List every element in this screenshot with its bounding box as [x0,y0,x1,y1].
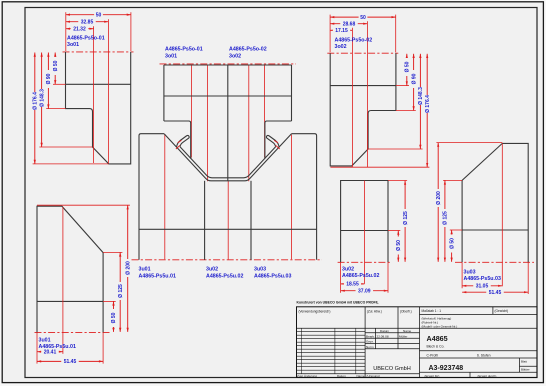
tb v divider 493 [492,307,494,315]
view 3o02 outline [330,53,396,166]
view 3o02 axis centerline [327,52,398,54]
svg-text:A4865: A4865 [427,334,448,343]
svg-text:A3-923748: A3-923748 [429,365,464,372]
ext horiz Ø176.4 (3o01) [33,163,109,165]
dim 21.32 (3o01) [66,28,94,30]
svg-text:Datum: Datum [337,374,346,378]
dim 37.09 (3u02) [341,290,388,292]
ext line 28.68 (3o02) [366,21,368,167]
top rolls divider (pass center) [227,65,229,181]
view 3u01 axis centerline [35,331,111,333]
view 3u02 outline [341,181,388,263]
svg-text:Ø 176.4: Ø 176.4 [33,92,39,110]
svg-text:51.45: 51.45 [64,359,77,365]
svg-text:Ø 90: Ø 90 [411,73,417,84]
ext vert left (3u03) [461,262,463,288]
svg-text:Norm: Norm [366,345,374,349]
svg-text:Ø 200: Ø 200 [125,261,131,275]
ext horiz Ø90 (3o01) [46,108,65,110]
svg-text:Name: Name [357,374,365,378]
bend mark right [276,145,280,149]
top rolls right face [291,65,293,121]
svg-text:Änderung: Änderung [304,374,317,378]
tb h under A3 right [420,371,538,373]
top rolls bore line [164,95,292,97]
svg-text:UBECO GmbH: UBECO GmbH [373,366,411,372]
ext vert left (3u01) [36,332,38,363]
svg-text:(Urspung): (Urspung) [367,374,380,378]
strip inner surface [180,147,276,178]
ref line 18.55 (3u02) [363,181,365,284]
dia dim Ø90 (3o02) [413,54,415,111]
svg-text:3u02: 3u02 [206,267,218,273]
svg-text:18.55: 18.55 [346,282,359,288]
ref line a4 (center) [227,181,229,259]
svg-text:3u01: 3u01 [39,338,51,344]
svg-text:Blatt: Blatt [521,359,527,363]
ext vert 20.41 (3u01) [62,207,64,354]
svg-text:(Oberfl.): (Oberfl.) [400,310,412,314]
ext horiz Ø50 (3o02) [396,85,409,87]
bottom roll divider right [250,181,252,260]
svg-text:51.45: 51.45 [489,290,502,296]
dia dim Ø50 (3u02) [397,231,399,262]
svg-text:3u01: 3u01 [139,267,151,273]
ext horiz Ø200 (3u03) [436,142,502,144]
tb v divider blatt [519,358,521,372]
dia dim Ø200 (3u03) [437,143,439,262]
top roll 3o01 shoulder [164,121,191,159]
svg-text:Ø 125: Ø 125 [118,284,124,298]
svg-text:17.15: 17.15 [335,28,348,34]
dim 50 (3o02) [330,16,396,18]
ext horiz Ø50 (3u02) [388,230,400,232]
top rolls left face [163,65,165,121]
svg-text:A4865-Ps5o-01: A4865-Ps5o-01 [67,36,105,42]
svg-text:28.68: 28.68 [343,21,356,27]
tb h top row [420,313,538,315]
tb v divider 398 [397,307,399,349]
svg-text:3o02: 3o02 [229,54,241,60]
dim 31.05 (3u03) [462,285,502,287]
view 3o01 bore line [66,83,131,85]
ext horiz Ø148.3 (3o02) [368,148,423,150]
dia dim Ø50 (3o01) [54,53,56,85]
svg-text:Ø 125: Ø 125 [403,211,409,225]
tb revision grid rows [297,331,366,333]
ext line right (3o01) [130,12,132,51]
ext horiz Ø50 (3o01) [53,83,66,85]
svg-text:Blech & Co.: Blech & Co. [427,344,445,348]
tb h under cprofil [420,357,538,359]
svg-text:Ø 50: Ø 50 [53,60,59,71]
top rolls top edge [164,64,292,66]
svg-text:(Ersatz durch): (Ersatz durch) [478,374,497,378]
svg-text:50: 50 [96,12,102,18]
svg-text:3o01: 3o01 [67,42,79,48]
svg-text:(Gewicht): (Gewicht) [495,309,509,313]
svg-text:Blätter: Blätter [521,368,530,372]
ext line 21.32 (3o01) [93,26,95,163]
svg-text:A4865-Ps5u.02: A4865-Ps5u.02 [206,274,243,280]
tb v divider 365 [364,307,366,378]
dim 17.15 (3o02) [330,29,352,31]
title block frame [297,307,538,378]
ext vert right (3u03) [527,262,529,294]
svg-text:3u03: 3u03 [254,267,266,273]
svg-text:Ø 50: Ø 50 [396,240,402,251]
svg-text:(Ersatz für): (Ersatz für) [425,374,440,378]
ext horiz Ø50 (3u03) [450,229,462,231]
bend mark left upper [178,140,182,143]
svg-text:32.85: 32.85 [81,19,94,25]
svg-text:Name: Name [403,329,412,333]
ext horiz Ø90 (3o02) [396,110,416,112]
ext line right (3o02) [395,15,397,53]
svg-text:21.32: 21.32 [73,26,86,32]
ext horiz Ø176.4 (3o02) [330,166,429,168]
svg-text:Ø 148.3: Ø 148.3 [418,87,424,105]
svg-text:3o01: 3o01 [165,54,177,60]
svg-text:C-Profil: C-Profil [427,353,439,357]
dia dim Ø50 (3u01) [113,301,115,332]
ext horiz Ø125 (3u03) [443,179,462,181]
dia dim Ø125 (3u02) [404,181,406,262]
dia dim Ø176.4 (3o02) [426,54,428,167]
ext horiz Ø125 (3u02) [388,180,407,182]
tb revision grid cols [301,328,303,374]
ext horiz Ø148.3 (3o01) [39,146,92,148]
svg-text:A4865-Ps5u.02: A4865-Ps5u.02 [342,273,379,279]
ext horiz Ø50 (3u01) [103,300,116,302]
ext horiz Ø125 (3u01) [103,251,122,253]
svg-text:Müller: Müller [399,334,407,338]
ext horiz Ø200 (3u01) [37,204,130,206]
svg-text:(Modell- oder Gesenk-Nr.): (Modell- oder Gesenk-Nr.) [422,324,458,328]
dim 28.68 (3o02) [330,23,367,25]
ext vert right (3u01) [102,332,104,363]
dia dim Ø200 (3u01) [127,205,129,332]
view 3u03 outline [462,143,528,262]
bottom rolls bore line [139,228,317,230]
view 3u02 axis centerline [338,261,391,263]
dim 18.55 (3u02) [341,283,365,285]
top roll 3o02 shoulder [265,121,292,159]
dim 20.41 (3u01) [37,351,63,353]
svg-text:Zust.: Zust. [297,374,304,378]
svg-text:50: 50 [360,15,366,21]
dia dim Ø50 (3u03) [451,230,453,262]
dia dim Ø148.3 (3o02) [419,54,421,149]
ref line a1 [164,134,166,259]
strip right lip [266,135,279,147]
tb v divider 419 [419,307,421,378]
view 3o01 axis centerline [63,51,134,53]
svg-text:Ø 200: Ø 200 [436,191,442,205]
assembly bottom axis centerline [132,259,323,261]
svg-text:A4865-Ps5o-01: A4865-Ps5o-01 [165,47,203,53]
view 3u03 axis centerline [455,261,534,263]
ext line left (3o02) [329,15,331,53]
svg-text:Konstruiert von UBECO GmbH mit: Konstruiert von UBECO GmbH mit UBECO PRO… [297,301,379,305]
svg-text:Ø 176.4: Ø 176.4 [425,95,431,113]
ext line left (3o01) [65,12,67,51]
bottom roll divider left [204,181,206,260]
tb h blatt divider [520,365,538,367]
ref line a6 [264,66,266,158]
svg-text:A4865-Ps5u.01: A4865-Ps5u.01 [139,274,176,280]
dia dim Ø148.3 (3o01) [41,53,43,148]
view 3u01 outline [37,206,103,332]
dia dim Ø125 (3u01) [119,252,121,332]
svg-text:3o02: 3o02 [335,44,347,50]
svg-text:3u02: 3u02 [342,267,354,273]
svg-text:Ø 125: Ø 125 [443,211,449,225]
dia dim Ø125 (3u03) [444,180,446,261]
assembly top axis centerline [160,63,297,65]
dim 32.85 (3o01) [66,21,109,23]
tb h under A4865 [420,350,538,352]
tb v divider bearb col [375,328,377,349]
svg-text:Ø 148.3: Ø 148.3 [39,89,45,107]
dia dim Ø50 (3o02) [406,54,408,86]
strip outer surface [164,134,291,181]
bend mark left [176,145,180,149]
svg-text:37.09: 37.09 [358,288,371,294]
tb subtable bottom [365,348,419,350]
tb h bottom strip left [297,373,420,375]
svg-text:A4865-Ps5u.03: A4865-Ps5u.03 [464,276,501,282]
strip left lip [177,135,190,147]
view 3u03 bore line [462,229,528,231]
svg-text:A4865-Ps5u.01: A4865-Ps5u.01 [39,344,76,350]
svg-text:A4865-Ps5u.03: A4865-Ps5u.03 [254,274,291,280]
svg-text:Maßstab 1 : 1: Maßstab 1 : 1 [422,309,442,313]
ext vert right (3u02) [387,262,389,292]
ext vert left (3u02) [340,262,342,292]
tb v divider ersatz [469,372,471,377]
dim 50 (3o01) [66,14,131,16]
ref line a5 [248,66,250,182]
ext line 17.15 (3o02) [351,28,353,167]
view 3o02 bore line [330,85,396,87]
ref line a7 [291,135,293,259]
svg-text:6. Stufen: 6. Stufen [477,353,491,357]
dim 51.45 (3u03) [462,291,528,293]
svg-text:Ø 50: Ø 50 [405,61,411,72]
svg-text:Bearb.: Bearb. [366,334,375,338]
svg-text:Ø 90: Ø 90 [46,73,52,84]
ext vert 31.05 (3u03) [501,143,503,286]
dia dim Ø176.4 (3o01) [34,53,36,164]
dim 51.45 (3u01) [37,360,103,362]
svg-text:31.05: 31.05 [476,284,489,290]
svg-text:A4865-Ps5o-02: A4865-Ps5o-02 [335,38,373,44]
ref line a3 [206,66,208,182]
svg-text:Gepr.: Gepr. [366,340,374,344]
view 3u01 bore line [37,300,103,302]
svg-text:(Zul. Abw.): (Zul. Abw.) [367,310,382,314]
bend mark right upper [274,140,278,143]
tb subtable rows [365,332,419,334]
ref line a2 [190,66,192,158]
view 3o01 outline [66,52,131,164]
svg-text:22.08.08: 22.08.08 [377,334,389,338]
svg-text:20.41: 20.41 [44,349,57,355]
svg-text:Datum: Datum [380,329,390,333]
view 3u02 bore line [341,230,388,232]
tb h main [297,327,538,329]
svg-text:Ø 50: Ø 50 [449,238,455,249]
dia dim Ø90 (3o01) [47,53,49,109]
svg-text:A4865-Ps5o-02: A4865-Ps5o-02 [229,47,267,53]
svg-text:Ø 50: Ø 50 [111,312,117,323]
bottom roll 3u01 outline [139,134,164,260]
ext line 32.85 (3o01) [107,19,109,163]
bottom roll 3u03 outline [292,134,317,260]
svg-text:3u03: 3u03 [464,270,476,276]
svg-text:(Verwendungsbereich): (Verwendungsbereich) [299,310,331,314]
